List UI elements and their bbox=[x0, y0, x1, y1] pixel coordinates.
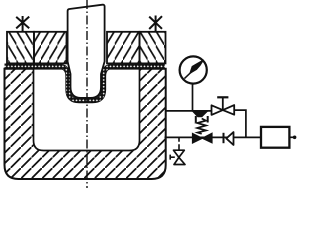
pump outlet stub and dot bbox=[290, 136, 297, 140]
gauge stem pipe bbox=[192, 84, 194, 111]
clamp star symbol left bbox=[16, 16, 29, 32]
blank holder plate right outer bbox=[140, 32, 166, 64]
centerline bbox=[86, 0, 88, 188]
die cavity bbox=[34, 69, 140, 151]
shut-off valve with T handle bbox=[212, 97, 235, 115]
clamp star symbol right bbox=[149, 16, 162, 32]
punch bbox=[68, 5, 105, 98]
relief valve body bbox=[193, 111, 208, 122]
sheet blank bbox=[5, 66, 165, 100]
blank holder plate right inner bbox=[107, 32, 140, 64]
relief valve spring bbox=[197, 119, 206, 134]
pressure gauge bbox=[180, 56, 207, 83]
drain stub pipe bbox=[178, 137, 180, 149]
upper pipe bbox=[166, 110, 212, 112]
drain valve bbox=[170, 150, 185, 164]
die block bbox=[5, 69, 166, 179]
blank holder plate left inner bbox=[34, 32, 67, 64]
pipe from shut-off valve to down corner bbox=[234, 110, 246, 137]
pump cylinder box bbox=[261, 127, 289, 148]
lower pipe bbox=[165, 136, 262, 138]
check valve bbox=[224, 132, 234, 145]
relief valve bowtie bbox=[193, 133, 213, 143]
blank holder plate left outer bbox=[7, 32, 34, 64]
